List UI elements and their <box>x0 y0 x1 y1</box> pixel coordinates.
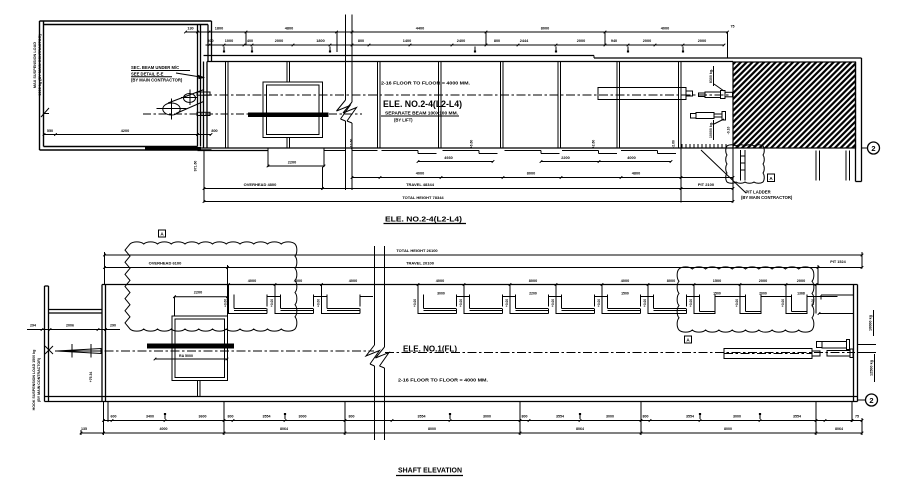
break line bottom right stroke <box>376 246 390 440</box>
svg-text:3554: 3554 <box>418 415 426 419</box>
svg-text:3000: 3000 <box>483 415 491 419</box>
svg-text:2400: 2400 <box>457 39 465 43</box>
landing door jamb right <box>323 148 325 167</box>
shaft bottom wall lower line mid <box>324 150 378 152</box>
svg-text:(BY LIFT): (BY LIFT) <box>394 118 413 123</box>
svg-text:8000: 8000 <box>529 279 537 283</box>
svg-text:10000 kg.: 10000 kg. <box>709 122 713 138</box>
buffer 2 rod <box>714 114 722 117</box>
svg-text:2000: 2000 <box>275 39 283 43</box>
shaft bottom wall upper line <box>198 147 734 149</box>
svg-text:2000: 2000 <box>643 39 651 43</box>
svg-text:SEPARATE BEAM 100X100 MM.: SEPARATE BEAM 100X100 MM. <box>385 111 458 116</box>
floor tick labels 4000 row <box>227 279 817 286</box>
sec beam note leader <box>176 73 204 79</box>
svg-text:10000 kg: 10000 kg <box>869 314 873 331</box>
svg-text:3000: 3000 <box>437 292 445 296</box>
buffer top right small square <box>817 342 823 348</box>
svg-text:HOOK SUSPENSION LOAD 1500 kg: HOOK SUSPENSION LOAD 1500 kg <box>32 350 36 411</box>
svg-text:3000: 3000 <box>606 415 614 419</box>
leader 8300 to buffer <box>714 84 724 91</box>
car cabin outer box <box>263 82 323 138</box>
car cabin inner box <box>267 85 320 135</box>
shaft bottom wall lower line left <box>198 150 269 152</box>
svg-text:TRAVEL 20100: TRAVEL 20100 <box>406 261 435 266</box>
top dim row2 labels <box>207 39 706 43</box>
car cabin bottom inner <box>175 319 225 378</box>
pit floor teeth <box>682 144 726 148</box>
buffer 1 rod <box>699 93 706 97</box>
svg-text:1500: 1500 <box>621 292 629 296</box>
svg-text:2006: 2006 <box>66 324 74 328</box>
svg-text:-0.10: -0.10 <box>727 127 731 135</box>
svg-text:2000: 2000 <box>759 292 767 296</box>
svg-text:800: 800 <box>349 415 355 419</box>
grid bubble 2 top <box>862 142 880 154</box>
svg-text:4000: 4000 <box>294 279 302 283</box>
jack rod <box>812 351 820 356</box>
svg-text:2: 2 <box>871 144 875 153</box>
svg-text:4200: 4200 <box>121 129 129 133</box>
machine room top wall (double) <box>40 21 212 25</box>
svg-text:+0.00: +0.00 <box>317 299 321 307</box>
rotated text 10000 kg right <box>869 310 874 336</box>
svg-text:1500: 1500 <box>713 279 721 283</box>
hook beam (double) <box>49 310 103 314</box>
svg-text:400: 400 <box>247 39 253 43</box>
shaft ceiling outer line right part <box>594 57 862 59</box>
machine room floor dimension 550 4200 800 <box>43 129 218 136</box>
svg-text:3000: 3000 <box>733 415 741 419</box>
svg-text:940: 940 <box>611 39 617 43</box>
left bay second wall (double) <box>102 285 106 402</box>
shaft ceiling step <box>593 56 595 59</box>
svg-text:12500 kg: 12500 kg <box>870 359 874 376</box>
pit ladder leader <box>701 150 746 193</box>
subtitle ELE NO.2-4 underlined <box>384 215 467 224</box>
revision marker A box (pit) <box>768 174 775 182</box>
svg-text:3000: 3000 <box>299 415 307 419</box>
svg-text:4000: 4000 <box>661 27 669 31</box>
svg-text:800: 800 <box>358 39 364 43</box>
svg-text:MAX SUSPENSION LOAD: MAX SUSPENSION LOAD <box>33 42 37 88</box>
svg-text:3554: 3554 <box>556 415 564 419</box>
svg-text:OVERHEAD 4800: OVERHEAD 4800 <box>244 182 277 187</box>
svg-text:2200: 2200 <box>561 156 569 160</box>
revision marker A box right <box>685 336 692 343</box>
svg-text:2200: 2200 <box>288 161 296 165</box>
bottom dim row1 <box>102 415 863 422</box>
svg-text:+0.00: +0.00 <box>643 299 647 307</box>
hatched end wall block <box>733 62 856 148</box>
pit ladder rails <box>741 150 746 181</box>
svg-text:800: 800 <box>207 39 213 43</box>
overhead travel pit dim row <box>203 182 735 190</box>
separate beam bar (filled) <box>248 113 329 118</box>
pit wall stub 2 <box>846 151 850 181</box>
car inner dim 5000 <box>154 354 229 360</box>
right wall leader stubs <box>858 345 877 353</box>
machine room left wall (double) <box>40 21 44 150</box>
svg-text:800: 800 <box>228 415 234 419</box>
revision cloud left large <box>125 242 297 331</box>
bottom right wall (double) <box>854 285 858 402</box>
top dim row2 line <box>206 44 726 47</box>
svg-text:+0.00: +0.00 <box>270 299 274 307</box>
svg-text:OVERHEAD 6100: OVERHEAD 6100 <box>149 261 182 266</box>
svg-text:800: 800 <box>643 415 649 419</box>
svg-text:4400: 4400 <box>416 27 424 31</box>
buffer 2 left plate <box>691 114 697 119</box>
svg-text:600: 600 <box>111 415 117 419</box>
svg-text:294: 294 <box>30 324 36 328</box>
shaft ceiling inner line <box>207 61 733 63</box>
svg-text:+10.60: +10.60 <box>350 139 354 150</box>
svg-text:1000 kg (BY MAIN CONTRACTOR): 1000 kg (BY MAIN CONTRACTOR) <box>38 34 42 96</box>
break line bottom left stroke <box>366 246 380 440</box>
svg-text:1800: 1800 <box>316 39 324 43</box>
buffer top right body <box>822 342 847 349</box>
svg-text:(BY MAIN CONTRACTOR): (BY MAIN CONTRACTOR) <box>37 357 41 402</box>
svg-text:2-16 FLOOR TO FLOOR = 4000 MM.: 2-16 FLOOR TO FLOOR = 4000 MM. <box>398 378 488 383</box>
svg-text:8064: 8064 <box>280 427 288 431</box>
machine beam section in floor <box>145 147 201 150</box>
buffer bottom right plate <box>850 349 853 358</box>
buffer 1 wall pad <box>725 92 733 97</box>
svg-text:PIT 1524: PIT 1524 <box>830 260 846 264</box>
svg-text:+0.00: +0.00 <box>413 299 417 307</box>
svg-text:8000: 8000 <box>667 279 675 283</box>
row2 anchor marks <box>223 47 684 53</box>
pit wall stub 1 <box>816 151 820 181</box>
landing frames bottom drawing <box>229 285 838 315</box>
bottom total height dim line <box>103 248 863 256</box>
deflector sheave small <box>181 90 198 106</box>
car height dim 2200 bottom <box>173 291 229 317</box>
svg-text:4000: 4000 <box>248 279 256 283</box>
break line left stroke <box>337 15 351 191</box>
svg-text:4800: 4800 <box>285 27 293 31</box>
bottom dim extension verticals <box>81 402 862 436</box>
top dim row1 labels <box>187 25 734 31</box>
svg-text:ELE. NO.2-4(L2-L4): ELE. NO.2-4(L2-L4) <box>385 215 463 224</box>
svg-text:ELE. NO.1(FL): ELE. NO.1(FL) <box>403 345 457 354</box>
main centerline bottom drawing <box>55 351 855 353</box>
svg-text:75: 75 <box>731 25 735 29</box>
svg-text:2000: 2000 <box>577 39 585 43</box>
buffer 1 base plate <box>721 91 726 99</box>
bottom dim row2 <box>80 427 864 434</box>
svg-text:+0.00: +0.00 <box>224 299 228 307</box>
svg-text:TRAVEL 48344: TRAVEL 48344 <box>406 182 435 187</box>
svg-text:+6.60: +6.60 <box>470 140 474 149</box>
shaft ceiling outer line left part <box>204 55 595 57</box>
svg-text:SEE DETAIL E-E: SEE DETAIL E-E <box>131 72 164 77</box>
grid bubble 2 bottom <box>858 394 878 406</box>
hook tick 2 <box>90 344 92 358</box>
big label ELE NO.2-4 <box>381 99 462 123</box>
svg-text:+0.00: +0.00 <box>689 299 693 307</box>
buffer 2 body <box>696 113 714 119</box>
floor divider walls <box>226 62 682 149</box>
left bay wall (double) <box>45 286 49 402</box>
svg-text:+0.00: +0.00 <box>505 299 509 307</box>
rope hole beam mark upper <box>197 92 210 95</box>
centerline A dash-dot <box>203 94 731 96</box>
car guide rail stub bottom <box>287 138 290 149</box>
svg-text:800: 800 <box>522 415 528 419</box>
max suspension load rotated note <box>33 34 42 96</box>
machine room right inner wall (double) <box>198 25 201 147</box>
sec beam note text <box>131 65 190 83</box>
buffer bottom right body <box>827 351 850 357</box>
revision marker A box left <box>159 230 166 237</box>
svg-text:+75.34: +75.34 <box>89 372 93 383</box>
svg-text:4000: 4000 <box>416 172 424 176</box>
dim row y161 right segments <box>417 156 673 163</box>
svg-text:4000: 4000 <box>621 279 629 283</box>
hydraulic jack cylinder <box>724 349 812 359</box>
svg-text:+0.00: +0.00 <box>781 299 785 307</box>
top dim row1 line <box>184 31 729 34</box>
svg-text:3554: 3554 <box>793 415 801 419</box>
svg-text:8000: 8000 <box>724 427 732 431</box>
svg-text:2000: 2000 <box>797 279 805 283</box>
svg-text:1800: 1800 <box>215 27 223 31</box>
svg-text:800: 800 <box>211 129 217 133</box>
car crosshead beam bottom (filled) <box>147 344 234 349</box>
svg-text:SHAFT ELEVATION: SHAFT ELEVATION <box>398 466 462 475</box>
svg-text:4000: 4000 <box>349 279 357 283</box>
svg-text:+2.60: +2.60 <box>592 140 596 149</box>
bottom shaft ceiling line <box>102 284 858 286</box>
svg-text:2: 2 <box>869 396 873 405</box>
svg-text:8300 kg.: 8300 kg. <box>709 69 713 83</box>
svg-text:8064: 8064 <box>835 427 843 431</box>
total height dim row <box>203 195 735 203</box>
frame gap dim labels <box>437 292 805 296</box>
hook suspension rotated note <box>32 350 41 411</box>
svg-text:3554: 3554 <box>686 415 694 419</box>
rope hole beam mark lower <box>197 112 210 115</box>
svg-text:+0.00: +0.00 <box>551 299 555 307</box>
svg-text:1400: 1400 <box>403 39 411 43</box>
bottom dim extension verticals top <box>105 252 863 316</box>
leader 10000 to buffer <box>714 119 724 124</box>
shaft right wall (double) <box>856 58 862 182</box>
svg-text:290: 290 <box>110 324 116 328</box>
dim extension verticals top <box>246 32 728 58</box>
svg-text:2000: 2000 <box>759 279 767 283</box>
svg-text:SEC. BEAM UNDER M/C: SEC. BEAM UNDER M/C <box>131 65 179 70</box>
svg-text:135: 135 <box>81 427 87 431</box>
buffer 2 base plate <box>722 112 726 121</box>
svg-text:RA 5000: RA 5000 <box>179 354 193 358</box>
svg-text:8000: 8000 <box>428 427 436 431</box>
dim extension verticals bottom (top drawing) <box>204 148 733 203</box>
svg-text:2200: 2200 <box>194 291 202 295</box>
svg-text:3554: 3554 <box>263 415 271 419</box>
bottom overhead travel pit dim line <box>103 260 863 269</box>
svg-text:8064: 8064 <box>576 427 584 431</box>
svg-text:1368: 1368 <box>797 292 805 296</box>
traction sheave large <box>157 99 187 120</box>
revision cloud right <box>677 267 814 332</box>
svg-text:TOTAL HEIGHT 78344: TOTAL HEIGHT 78344 <box>402 195 444 200</box>
pit ladder revision cloud <box>726 145 765 184</box>
svg-text:1500: 1500 <box>713 292 721 296</box>
svg-text:800: 800 <box>494 39 500 43</box>
rotated load text 10000 kg <box>709 120 714 140</box>
svg-text:4930: 4930 <box>444 156 452 160</box>
svg-text:3600: 3600 <box>199 415 207 419</box>
svg-text:(BY MAIN CONTRACTOR): (BY MAIN CONTRACTOR) <box>131 78 183 83</box>
svg-text:2200: 2200 <box>529 292 537 296</box>
rotated load text 8300 kg <box>709 66 714 86</box>
bottom dim row1 anchor marks <box>164 413 761 419</box>
wall anchor tick bottom-left <box>41 108 49 117</box>
svg-text:ELE. NO.2-4(L2-L4): ELE. NO.2-4(L2-L4) <box>383 99 462 109</box>
svg-text:4800: 4800 <box>632 172 640 176</box>
counterweight block <box>598 88 686 100</box>
svg-text:TOTAL HEIGHT 26100: TOTAL HEIGHT 26100 <box>396 248 438 253</box>
svg-text:4000: 4000 <box>160 427 168 431</box>
label ELE NO.1(FL) <box>403 345 457 354</box>
hook cross mark <box>45 346 53 354</box>
car cabin bottom outer <box>172 316 228 381</box>
hook needle <box>57 349 101 354</box>
landing door jamb left <box>267 148 269 167</box>
bottom shaft floor wall (double) <box>45 397 858 402</box>
break line right stroke <box>343 15 357 191</box>
svg-text:PIT LADDER: PIT LADDER <box>746 190 771 195</box>
svg-text:4000: 4000 <box>436 279 444 283</box>
svg-text:+0.00: +0.00 <box>597 299 601 307</box>
door height dim 2200 <box>267 161 326 168</box>
svg-text:4000: 4000 <box>627 156 635 160</box>
main title SHAFT ELEVATION <box>396 466 463 476</box>
svg-text:1000: 1000 <box>225 39 233 43</box>
svg-text:8000: 8000 <box>527 172 535 176</box>
svg-text:(BY MAIN CONTRACTOR): (BY MAIN CONTRACTOR) <box>741 195 793 200</box>
svg-text:8000: 8000 <box>541 27 549 31</box>
last landing frame at pit <box>816 285 854 315</box>
hook tick 1 <box>71 344 73 358</box>
centerline B dash-dot <box>143 113 362 115</box>
svg-text:550: 550 <box>47 129 53 133</box>
car guide rail stub top <box>287 62 290 83</box>
landing sill steps <box>382 151 677 154</box>
svg-text:2444: 2444 <box>520 39 529 43</box>
buffer top right plate <box>847 340 850 350</box>
frame level rotated texts <box>224 299 816 307</box>
rotated text 12500 kg right <box>870 354 875 382</box>
svg-text:+0.00: +0.00 <box>735 299 739 307</box>
car rail stub bottom drawing <box>198 381 201 397</box>
svg-text:-2.60: -2.60 <box>672 140 676 148</box>
buffer 1 body <box>705 92 721 98</box>
hook dims 294 2006 290 <box>27 324 120 331</box>
pit ladder text <box>741 190 793 200</box>
svg-text:2-16 FLOOR TO FLOOR = 4000 MM.: 2-16 FLOOR TO FLOOR = 4000 MM. <box>381 81 470 86</box>
hoist rope diagonal <box>168 90 204 114</box>
svg-text:75: 75 <box>855 415 859 419</box>
svg-text:PIT 2100: PIT 2100 <box>698 182 715 187</box>
svg-text:2000: 2000 <box>698 39 706 43</box>
counterweight end plate <box>686 91 693 96</box>
svg-text:+0.00: +0.00 <box>459 299 463 307</box>
dim row y177 <box>351 172 735 179</box>
svg-text:130: 130 <box>187 27 193 31</box>
shaft left wall (double) <box>204 21 212 148</box>
machine room floor slab (double) <box>40 147 212 151</box>
svg-text:971.60: 971.60 <box>194 161 198 172</box>
svg-text:3400: 3400 <box>146 415 154 419</box>
